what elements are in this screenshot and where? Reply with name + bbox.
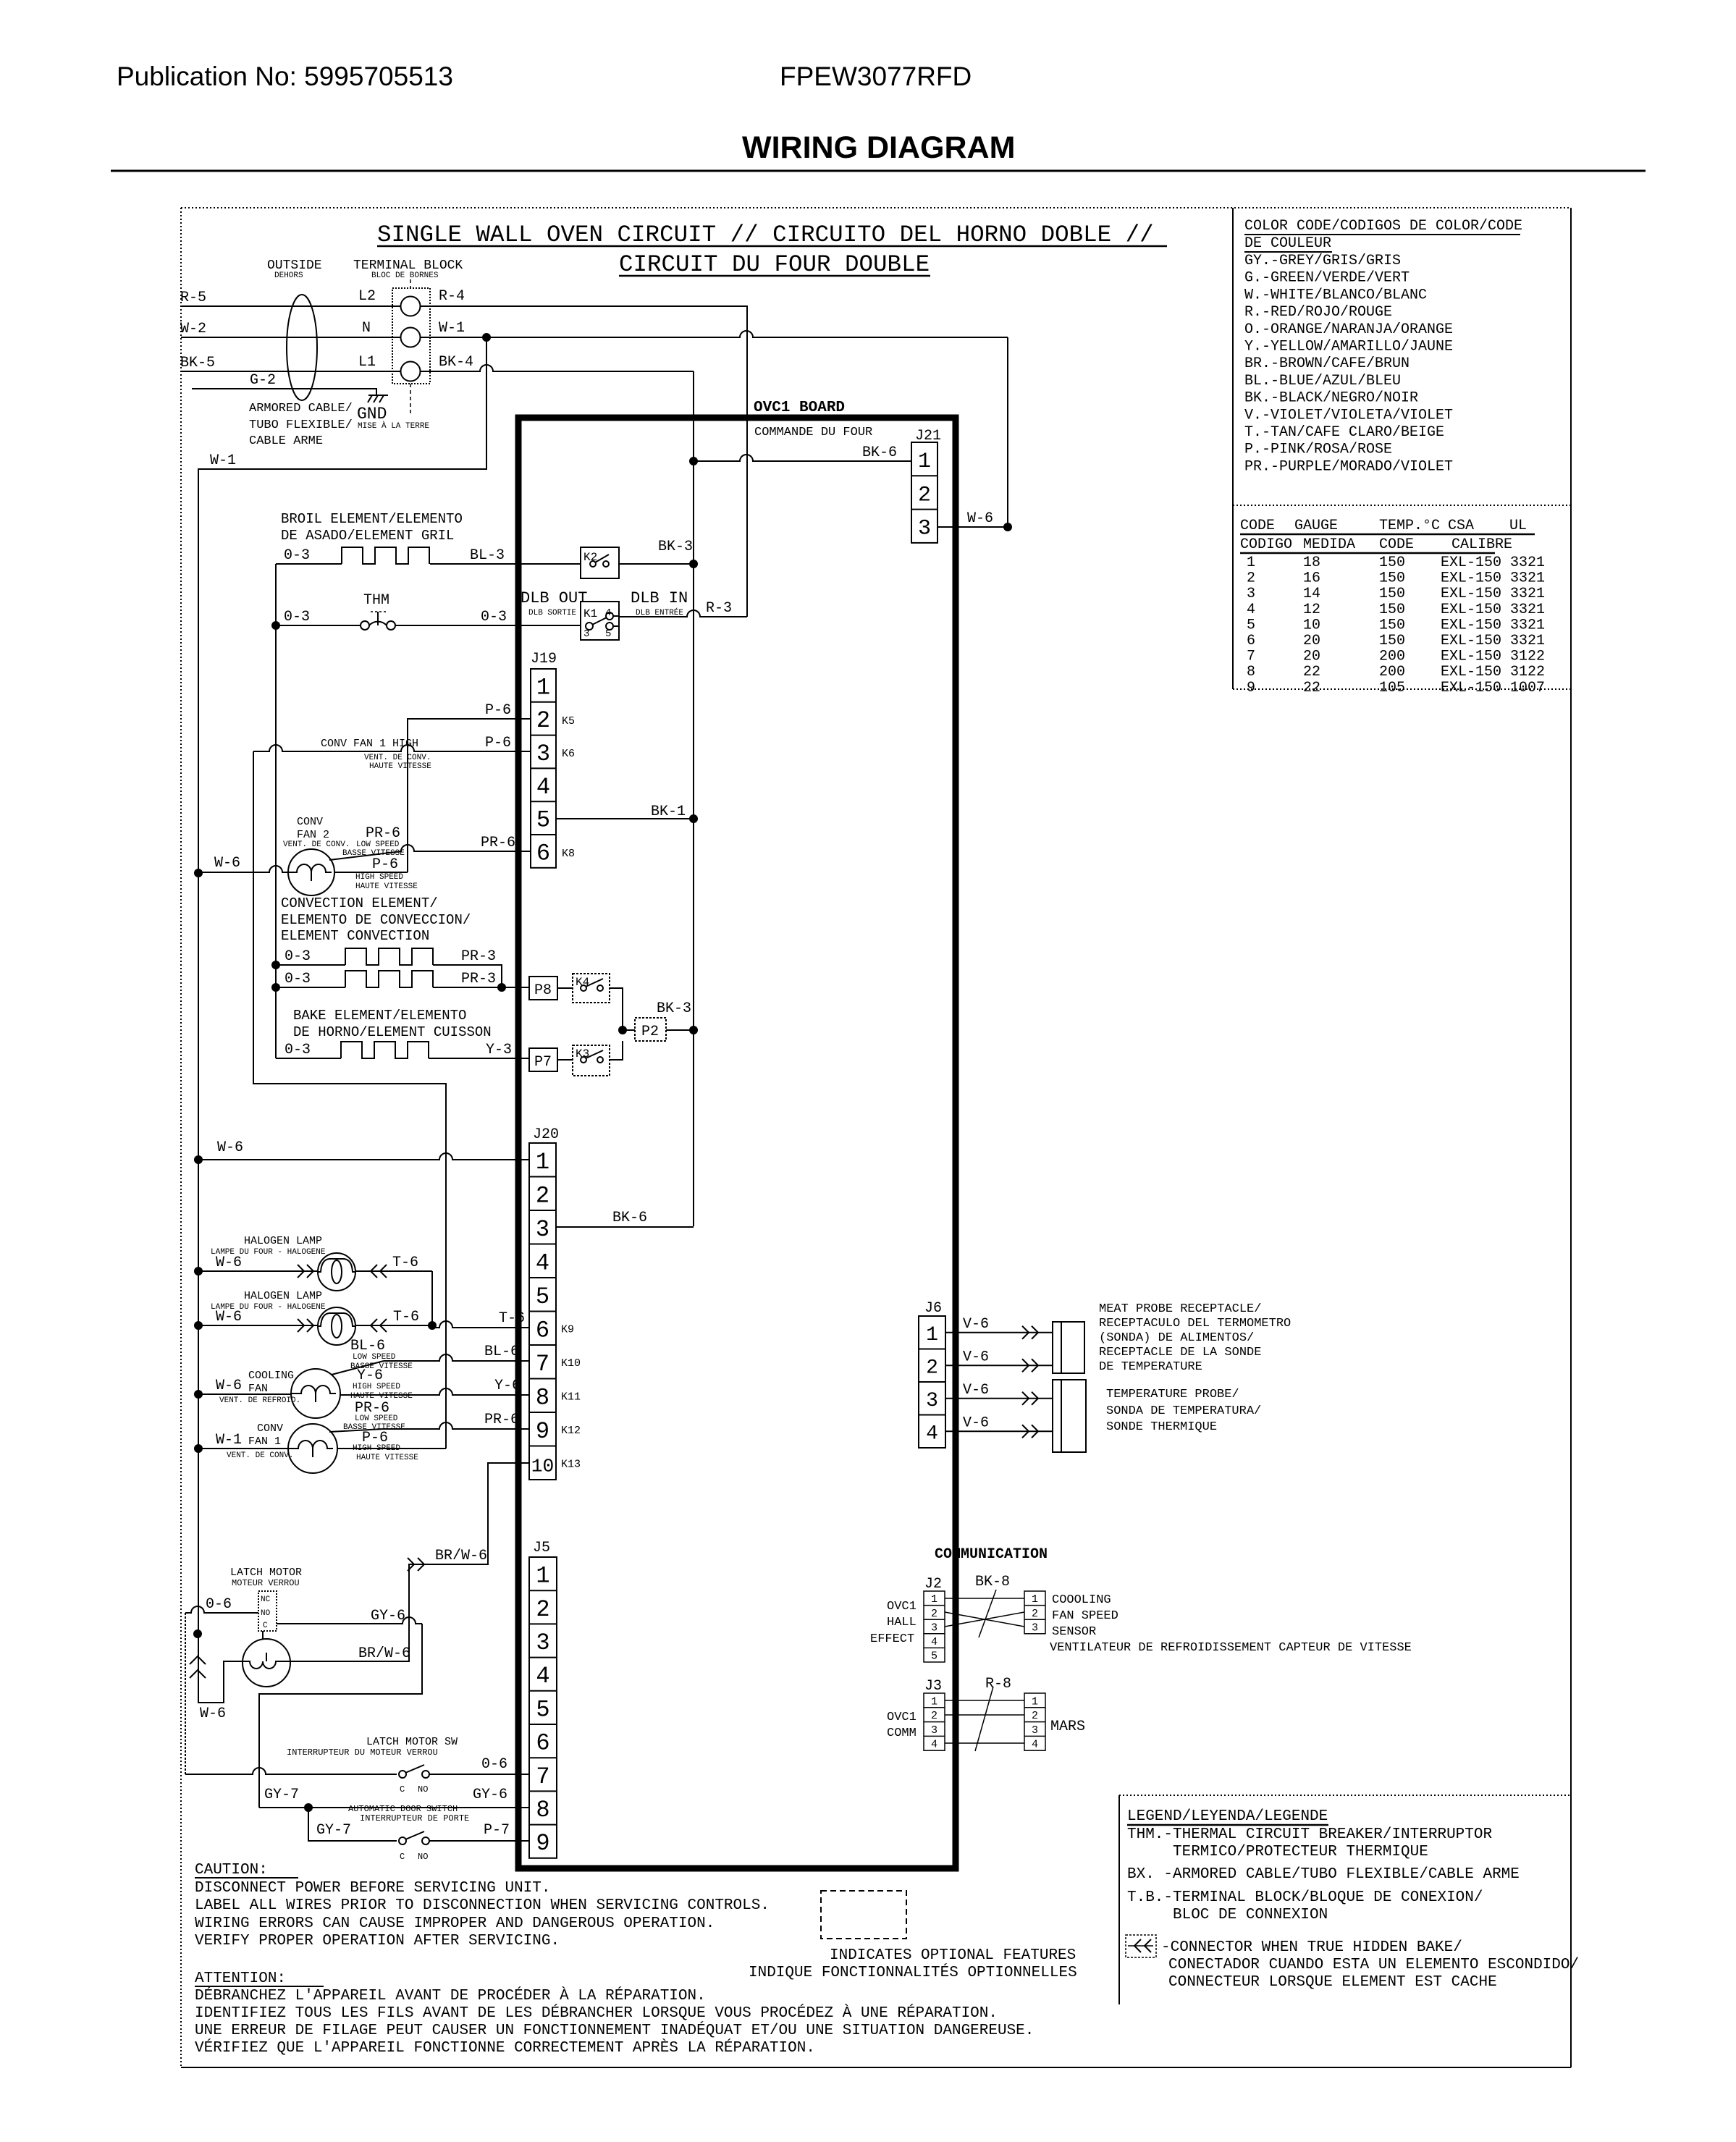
label W-6 (J20-1) xyxy=(217,1139,243,1156)
svg-text:HALOGEN LAMP: HALOGEN LAMP xyxy=(244,1235,322,1247)
svg-text:DÉBRANCHEZ L'APPAREIL AVANT DE: DÉBRANCHEZ L'APPAREIL AVANT DE PROCÉDER … xyxy=(195,1987,706,2004)
svg-text:K10: K10 xyxy=(561,1357,581,1370)
svg-text:4: 4 xyxy=(931,1739,937,1751)
legend heading xyxy=(1127,1808,1328,1825)
label K12 xyxy=(561,1425,581,1437)
label K11 xyxy=(561,1391,581,1404)
connector MARS xyxy=(1024,1693,1045,1751)
svg-text:K13: K13 xyxy=(561,1459,581,1471)
header model number xyxy=(780,62,972,91)
svg-text:PR-6: PR-6 xyxy=(484,1412,519,1428)
svg-text:LATCH MOTOR SW: LATCH MOTOR SW xyxy=(366,1736,458,1748)
wire BK vertical bus xyxy=(693,371,694,1226)
connector cooling fan sensor xyxy=(1024,1591,1045,1634)
svg-text:K8: K8 xyxy=(562,848,575,860)
svg-text:150: 150 xyxy=(1379,633,1405,649)
label K9 xyxy=(561,1324,574,1336)
label Y-6 HIGH SPEED xyxy=(350,1367,413,1401)
svg-text:COMMUNICATION: COMMUNICATION xyxy=(935,1546,1048,1563)
label N xyxy=(362,320,371,337)
svg-text:K3: K3 xyxy=(576,1047,589,1061)
label COOOLING FAN SPEED SENSOR xyxy=(1052,1593,1118,1639)
svg-text:LOW SPEED: LOW SPEED xyxy=(355,1414,398,1423)
label V-6 (1) xyxy=(963,1316,989,1333)
svg-text:NO: NO xyxy=(261,1609,271,1618)
svg-text:BK-6: BK-6 xyxy=(612,1210,647,1226)
label W-6 (lamp2) xyxy=(216,1309,242,1325)
connector J3 xyxy=(924,1693,945,1751)
svg-text:PR-6: PR-6 xyxy=(481,835,515,851)
circuit title line 1 xyxy=(377,222,1167,248)
svg-text:4: 4 xyxy=(931,1636,937,1648)
motor latch xyxy=(243,1639,290,1687)
svg-text:ARMORED CABLE/: ARMORED CABLE/ xyxy=(249,402,353,416)
label BR/W-6 (top) xyxy=(435,1548,487,1564)
svg-text:2: 2 xyxy=(1247,570,1255,587)
wire GY-6 to J5-8 xyxy=(259,1803,529,1812)
circuit title line 2 xyxy=(619,251,930,278)
svg-text:3: 3 xyxy=(1247,586,1255,602)
wire P-6 high speed (fan1) xyxy=(337,1448,446,1449)
label BK-1 xyxy=(651,804,686,820)
svg-text:CONVECTION ELEMENT/: CONVECTION ELEMENT/ xyxy=(281,895,438,911)
svg-text:10: 10 xyxy=(531,1455,555,1477)
svg-text:BK-3: BK-3 xyxy=(657,1000,691,1017)
svg-text:22: 22 xyxy=(1303,664,1320,680)
label CONV FAN 2 xyxy=(283,816,350,849)
svg-text:7: 7 xyxy=(536,1351,549,1378)
svg-text:CSA: CSA xyxy=(1448,518,1474,534)
junction dot BK-6 xyxy=(689,457,698,465)
connector J21 xyxy=(911,428,941,543)
svg-text:200: 200 xyxy=(1379,649,1405,665)
svg-text:COMM: COMM xyxy=(887,1726,917,1740)
svg-text:MEAT PROBE RECEPTACLE/: MEAT PROBE RECEPTACLE/ xyxy=(1099,1302,1261,1316)
svg-text:INDICATES OPTIONAL FEATURES: INDICATES OPTIONAL FEATURES xyxy=(830,1947,1076,1964)
wire W-6 to conv fan 2 xyxy=(198,866,288,872)
svg-text:V-6: V-6 xyxy=(963,1316,989,1333)
svg-text:W.-WHITE/BLANCO/BLANC: W.-WHITE/BLANCO/BLANC xyxy=(1244,287,1427,303)
header publication number xyxy=(117,62,453,91)
svg-text:EXL-150 3122: EXL-150 3122 xyxy=(1441,664,1545,680)
svg-text:3: 3 xyxy=(536,1216,549,1243)
wire BK-1 J19-5 xyxy=(556,814,698,823)
connector P8 xyxy=(529,977,557,1000)
svg-text:Y-6: Y-6 xyxy=(494,1378,521,1394)
svg-text:EFFECT: EFFECT xyxy=(870,1632,914,1646)
svg-text:T.B.-TERMINAL BLOCK/BLOQUE DE: T.B.-TERMINAL BLOCK/BLOQUE DE CONEXION/ xyxy=(1127,1889,1483,1906)
convection element coil 1 xyxy=(276,948,502,987)
svg-text:DE TEMPERATURE: DE TEMPERATURE xyxy=(1099,1360,1202,1374)
label 0-3 (conv1) xyxy=(285,948,311,965)
svg-text:P-7: P-7 xyxy=(484,1822,510,1839)
svg-text:BAKE ELEMENT/ELEMENTO: BAKE ELEMENT/ELEMENTO xyxy=(293,1008,466,1024)
svg-text:CODE: CODE xyxy=(1240,518,1275,534)
svg-text:TERMINAL BLOCK: TERMINAL BLOCK xyxy=(353,258,463,273)
wire R-4 to R-3 vertical xyxy=(421,306,747,617)
automatic door switch xyxy=(308,1808,529,1844)
svg-text:HIGH SPEED: HIGH SPEED xyxy=(353,1383,400,1391)
svg-text:K9: K9 xyxy=(561,1324,574,1336)
label COOLING FAN xyxy=(219,1370,300,1405)
header rule xyxy=(111,170,1646,172)
svg-text:K5: K5 xyxy=(562,715,575,728)
svg-text:HALOGEN LAMP: HALOGEN LAMP xyxy=(244,1290,322,1302)
svg-text:Y-6: Y-6 xyxy=(357,1367,383,1384)
motor conv fan 1 xyxy=(288,1424,337,1473)
svg-text:2: 2 xyxy=(926,1357,938,1379)
svg-text:R-8: R-8 xyxy=(985,1676,1011,1692)
svg-text:2: 2 xyxy=(931,1608,937,1620)
svg-text:HAUTE VITESSE: HAUTE VITESSE xyxy=(369,762,431,771)
svg-text:DE COULEUR: DE COULEUR xyxy=(1244,235,1331,252)
svg-text:CIRCUIT DU FOUR DOUBLE: CIRCUIT DU FOUR DOUBLE xyxy=(619,251,930,278)
wire W-6 from J21-3 xyxy=(937,523,1012,531)
svg-text:SONDE THERMIQUE: SONDE THERMIQUE xyxy=(1106,1420,1217,1434)
svg-text:V-6: V-6 xyxy=(963,1414,989,1431)
wire P-6 long branch xyxy=(253,751,446,1449)
svg-text:VENT. DE CONV.: VENT. DE CONV. xyxy=(364,754,431,762)
label PR-6 (J19-6) xyxy=(481,835,515,851)
svg-text:W-6: W-6 xyxy=(200,1705,226,1722)
svg-text:J20: J20 xyxy=(533,1126,559,1143)
label BK-5 xyxy=(180,355,215,371)
label VENTILATEUR xyxy=(1050,1641,1412,1655)
motor cooling fan xyxy=(291,1369,340,1418)
label O-6 (J5-7) xyxy=(481,1756,507,1773)
label C NO (door sw) xyxy=(400,1852,428,1862)
svg-text:0-3: 0-3 xyxy=(481,609,507,625)
label W-2 xyxy=(180,321,206,337)
svg-text:LOW SPEED: LOW SPEED xyxy=(356,840,400,849)
svg-text:T-6: T-6 xyxy=(499,1310,525,1327)
wire BK-6 to J21-1 xyxy=(694,455,911,461)
svg-text:DE ASADO/ELEMENT GRIL: DE ASADO/ELEMENT GRIL xyxy=(281,528,454,544)
svg-text:GY-7: GY-7 xyxy=(264,1787,299,1803)
svg-text:HAUTE VITESSE: HAUTE VITESSE xyxy=(356,1454,418,1462)
motor conv fan 2 xyxy=(288,849,334,895)
label R-4 xyxy=(439,288,465,305)
svg-text:CONECTADOR CUANDO ESTA UN ELEM: CONECTADOR CUANDO ESTA UN ELEMENTO ESCON… xyxy=(1168,1957,1579,1973)
svg-text:8: 8 xyxy=(536,1384,549,1411)
svg-text:FPEW3077RFD: FPEW3077RFD xyxy=(780,62,972,91)
svg-text:9: 9 xyxy=(1247,680,1255,696)
svg-text:5: 5 xyxy=(536,1696,549,1723)
svg-text:3: 3 xyxy=(926,1390,938,1412)
relay K1 xyxy=(581,602,619,640)
wires J3 to MARS xyxy=(945,1687,1024,1751)
wire PR-6 low speed (fan1) xyxy=(329,1422,529,1432)
wire 0-3 vertical bus xyxy=(275,564,277,1058)
junction dot W-6 fan2 xyxy=(194,869,203,877)
attention heading xyxy=(195,1970,324,1987)
svg-text:VERIFY PROPER OPERATION AFTER: VERIFY PROPER OPERATION AFTER SERVICING. xyxy=(195,1933,560,1949)
label K13 xyxy=(561,1459,581,1471)
svg-text:EXL-150 3321: EXL-150 3321 xyxy=(1441,617,1545,633)
terminal block TB xyxy=(392,288,430,416)
svg-text:NO: NO xyxy=(418,1852,428,1862)
svg-text:PR.-PURPLE/MORADO/VIOLET: PR.-PURPLE/MORADO/VIOLET xyxy=(1244,458,1453,475)
svg-text:Publication No: 5995705513: Publication No: 5995705513 xyxy=(117,62,453,91)
svg-text:R-3: R-3 xyxy=(706,600,732,617)
junction dots P2 xyxy=(618,1026,698,1034)
svg-text:5: 5 xyxy=(536,1283,549,1310)
svg-text:5: 5 xyxy=(931,1650,937,1663)
label 0-3 (conv2) xyxy=(285,971,311,987)
label BAKE ELEMENT xyxy=(293,1008,492,1040)
label P-6 (J19-3) xyxy=(485,735,511,751)
svg-text:FAN: FAN xyxy=(248,1383,268,1395)
svg-text:CONV: CONV xyxy=(257,1422,283,1435)
label OVC1 BOARD xyxy=(754,400,845,416)
svg-text:R.-RED/ROJO/ROUGE: R.-RED/ROJO/ROUGE xyxy=(1244,304,1392,321)
svg-text:K4: K4 xyxy=(576,976,589,989)
label COMMUNICATION xyxy=(935,1546,1048,1563)
wires J2 to sensor xyxy=(945,1590,1024,1637)
svg-text:3: 3 xyxy=(536,741,550,767)
svg-text:BR/W-6: BR/W-6 xyxy=(358,1645,410,1662)
svg-text:O.-ORANGE/NARANJA/ORANGE: O.-ORANGE/NARANJA/ORANGE xyxy=(1244,321,1453,338)
label V-6 (2) xyxy=(963,1349,989,1365)
svg-text:4: 4 xyxy=(536,774,550,801)
legend BX entry xyxy=(1127,1866,1520,1883)
svg-text:3: 3 xyxy=(1032,1724,1038,1737)
wire T-6 to J20-6 xyxy=(432,1321,529,1328)
label PR-6 LOW SPEED (fan1) xyxy=(343,1400,405,1432)
svg-text:COLOR CODE/CODIGOS DE COLOR/CO: COLOR CODE/CODIGOS DE COLOR/CODE xyxy=(1244,218,1522,235)
svg-text:150: 150 xyxy=(1379,555,1405,571)
connector P7 xyxy=(529,1048,557,1071)
legend TB entry xyxy=(1127,1889,1483,1923)
wire P-6 to J19-3 xyxy=(253,745,531,751)
legend THM entry xyxy=(1127,1826,1492,1860)
svg-text:C: C xyxy=(400,1852,405,1862)
svg-text:CONNECTEUR LORSQUE ELEMENT EST: CONNECTEUR LORSQUE ELEMENT EST CACHE xyxy=(1168,1974,1497,1991)
gauge table rows xyxy=(1247,555,1545,696)
label GY-6 (latch) xyxy=(371,1608,405,1624)
svg-text:GAUGE: GAUGE xyxy=(1294,518,1338,534)
label GND xyxy=(357,405,429,431)
svg-text:BK-6: BK-6 xyxy=(862,444,897,461)
svg-text:ELEMENTO DE CONVECCION/: ELEMENTO DE CONVECCION/ xyxy=(281,912,471,928)
junction dot W latch xyxy=(193,1629,202,1638)
svg-text:TUBO FLEXIBLE/: TUBO FLEXIBLE/ xyxy=(249,418,353,432)
svg-text:INDIQUE FONCTIONNALITÉS OPTION: INDIQUE FONCTIONNALITÉS OPTIONNELLES xyxy=(749,1964,1077,1981)
label DLB IN xyxy=(631,589,688,617)
svg-text:1: 1 xyxy=(536,674,550,701)
gauge table heading xyxy=(1240,518,1535,553)
svg-text:BL-6: BL-6 xyxy=(484,1344,519,1360)
wire GY-6 from latch C xyxy=(259,1617,422,1808)
wire BR/W-6 to J20-10 xyxy=(290,1463,529,1661)
svg-text:BR/W-6: BR/W-6 xyxy=(435,1548,487,1564)
svg-text:6: 6 xyxy=(536,840,550,867)
wire W-2 xyxy=(181,337,400,338)
svg-text:BK.-BLACK/NEGRO/NOIR: BK.-BLACK/NEGRO/NOIR xyxy=(1244,390,1418,407)
wire R-5 xyxy=(181,305,400,307)
label P-6 HIGH SPEED (fan1) xyxy=(353,1430,418,1462)
svg-text:22: 22 xyxy=(1303,680,1320,696)
wire BK-6 from J20-3 xyxy=(556,1226,694,1228)
svg-text:PR-3: PR-3 xyxy=(461,948,496,965)
svg-text:K12: K12 xyxy=(561,1425,581,1437)
svg-text:EXL-150 3122: EXL-150 3122 xyxy=(1441,649,1545,665)
svg-text:10: 10 xyxy=(1303,617,1320,633)
svg-text:EXL-150 3321: EXL-150 3321 xyxy=(1441,602,1545,618)
svg-text:R-4: R-4 xyxy=(439,288,465,305)
svg-text:MISE À LA TERRE: MISE À LA TERRE xyxy=(358,421,429,431)
wire BK-5 xyxy=(181,371,400,372)
ground symbol GND xyxy=(368,395,388,402)
label BL-3 xyxy=(470,547,505,564)
svg-text:OVC1: OVC1 xyxy=(887,1600,917,1614)
label 0-3 (THM left) xyxy=(284,609,310,625)
svg-text:TERMICO/PROTECTEUR THERMIQUE: TERMICO/PROTECTEUR THERMIQUE xyxy=(1173,1844,1428,1860)
svg-text:150: 150 xyxy=(1379,617,1405,633)
label OVC1 COMM xyxy=(887,1711,917,1740)
wire O-6 to latch NO xyxy=(185,1606,258,1774)
svg-text:150: 150 xyxy=(1379,602,1405,618)
svg-text:OUTSIDE: OUTSIDE xyxy=(267,258,322,273)
label K10 xyxy=(561,1357,581,1370)
svg-text:EXL-150 3321: EXL-150 3321 xyxy=(1441,586,1545,602)
label V-6 (4) xyxy=(963,1414,989,1431)
svg-text:GY-6: GY-6 xyxy=(371,1608,405,1624)
label BK-4 xyxy=(439,354,473,371)
label BK-6 (J21) xyxy=(862,444,897,461)
svg-text:5: 5 xyxy=(536,807,550,834)
label GY-7 (dot) xyxy=(264,1787,299,1803)
svg-text:RECEPTACLE DE LA SONDE: RECEPTACLE DE LA SONDE xyxy=(1099,1346,1261,1359)
caution heading xyxy=(195,1862,298,1879)
label L2 xyxy=(358,288,376,305)
wire DLB IN / R-3 xyxy=(619,610,747,617)
label P-6 HIGH SPEED xyxy=(355,856,418,891)
svg-text:3: 3 xyxy=(1032,1622,1038,1634)
relay K3 xyxy=(557,1041,623,1076)
svg-text:18: 18 xyxy=(1303,555,1320,571)
color code list xyxy=(1244,253,1453,475)
connector J5 xyxy=(529,1540,557,1858)
junction dot 0-3 THM xyxy=(271,621,280,630)
relay K2 xyxy=(581,547,694,578)
svg-text:HAUTE VITESSE: HAUTE VITESSE xyxy=(355,882,418,891)
wire P-6 high speed xyxy=(334,872,408,873)
svg-text:COOLING: COOLING xyxy=(248,1370,294,1382)
svg-text:J19: J19 xyxy=(531,651,557,667)
svg-text:NO: NO xyxy=(418,1784,428,1795)
svg-text:INTERRUPTEUR DU MOTEUR VERROU: INTERRUPTEUR DU MOTEUR VERROU xyxy=(287,1747,438,1758)
main diagram border xyxy=(181,208,1571,2067)
svg-text:1: 1 xyxy=(931,1695,937,1708)
svg-text:W-6: W-6 xyxy=(214,855,240,872)
svg-text:0-3: 0-3 xyxy=(285,1042,311,1058)
svg-text:1: 1 xyxy=(536,1563,549,1590)
svg-text:P7: P7 xyxy=(534,1054,552,1071)
label W-6 (fan2) xyxy=(214,855,240,872)
svg-text:1: 1 xyxy=(1032,1695,1038,1708)
svg-text:THM: THM xyxy=(363,592,389,609)
wire BL-6 low speed xyxy=(332,1354,529,1375)
svg-text:200: 200 xyxy=(1379,664,1405,680)
svg-text:0-3: 0-3 xyxy=(284,547,310,564)
label W-6 (cooling fan) xyxy=(216,1378,242,1394)
svg-text:CAUTION:: CAUTION: xyxy=(195,1862,268,1879)
svg-text:6: 6 xyxy=(1247,633,1255,649)
wire V-6 J6-4 xyxy=(945,1425,1053,1438)
attention text xyxy=(195,1987,1034,2057)
svg-text:7: 7 xyxy=(536,1763,549,1790)
svg-text:P-6: P-6 xyxy=(485,735,511,751)
svg-text:P8: P8 xyxy=(534,982,552,999)
svg-text:DLB IN: DLB IN xyxy=(631,589,688,607)
svg-text:L1: L1 xyxy=(358,354,376,371)
svg-text:W-6: W-6 xyxy=(216,1378,242,1394)
label AUTOMATIC DOOR SWITCH xyxy=(348,1804,469,1823)
label J2 xyxy=(924,1576,942,1593)
wire W-6 to J20-1 xyxy=(194,1153,529,1164)
svg-text:SENSOR: SENSOR xyxy=(1052,1625,1096,1639)
halogen lamp 1 xyxy=(194,1253,432,1325)
legend connector entry xyxy=(1161,1939,1579,1991)
label OUTSIDE/DEHORS xyxy=(267,258,322,280)
svg-text:VENT. DE CONV.: VENT. DE CONV. xyxy=(283,840,350,849)
label MEAT PROBE RECEPTACLE xyxy=(1099,1302,1291,1374)
svg-text:K1: K1 xyxy=(583,607,597,620)
header title WIRING DIAGRAM xyxy=(742,130,1015,165)
label G-2 xyxy=(250,372,276,389)
svg-text:LEGEND/LEYENDA/LEGENDE: LEGEND/LEYENDA/LEGENDE xyxy=(1127,1808,1328,1825)
svg-text:COOOLING: COOOLING xyxy=(1052,1593,1111,1607)
svg-text:105: 105 xyxy=(1379,680,1405,696)
svg-text:Y.-YELLOW/AMARILLO/JAUNE: Y.-YELLOW/AMARILLO/JAUNE xyxy=(1244,339,1453,355)
label PR-3 (conv1) xyxy=(461,948,496,965)
svg-text:9: 9 xyxy=(536,1830,549,1857)
label Y-6 (J20-8) xyxy=(494,1378,521,1394)
svg-text:CODE: CODE xyxy=(1379,536,1414,553)
wire PR-6 to J19-6 xyxy=(401,845,531,851)
svg-text:G.-GREEN/VERDE/VERT: G.-GREEN/VERDE/VERT xyxy=(1244,270,1410,287)
wire W-6 to cooling fan xyxy=(194,1390,291,1399)
svg-text:3: 3 xyxy=(931,1724,937,1737)
label K6 xyxy=(562,748,575,760)
broil element resistor xyxy=(276,547,581,564)
label W-1 (left) xyxy=(210,452,236,469)
svg-text:GY-6: GY-6 xyxy=(473,1787,507,1803)
junction dots convection xyxy=(271,961,506,992)
svg-text:SONDA DE TEMPERATURA/: SONDA DE TEMPERATURA/ xyxy=(1106,1404,1261,1418)
armored cable ellipse xyxy=(287,295,317,400)
svg-text:150: 150 xyxy=(1379,586,1405,602)
label DLB OUT xyxy=(521,589,587,617)
connector J2 xyxy=(924,1591,945,1663)
svg-text:DLB ENTRÉE: DLB ENTRÉE xyxy=(636,607,683,617)
svg-text:TEMPERATURE PROBE/: TEMPERATURE PROBE/ xyxy=(1106,1388,1239,1401)
label INDICATES OPTIONAL FEATURES xyxy=(749,1947,1077,1981)
wire P-6 to J19-2 xyxy=(408,719,531,872)
label CONV FAN 1 HIGH xyxy=(321,738,431,771)
svg-text:WIRING ERRORS CAN CAUSE IMPROP: WIRING ERRORS CAN CAUSE IMPROPER AND DAN… xyxy=(195,1915,715,1932)
svg-text:CABLE ARME: CABLE ARME xyxy=(249,434,323,448)
svg-text:L2: L2 xyxy=(358,288,376,305)
label 0-3 (THM right) xyxy=(481,609,507,625)
svg-text:GY-7: GY-7 xyxy=(316,1822,351,1839)
connector J19 xyxy=(531,651,557,868)
svg-text:BK-8: BK-8 xyxy=(975,1574,1010,1590)
svg-text:W-1: W-1 xyxy=(210,452,236,469)
svg-text:2: 2 xyxy=(1032,1710,1038,1722)
svg-text:T.-TAN/CAFE CLARO/BEIGE: T.-TAN/CAFE CLARO/BEIGE xyxy=(1244,424,1444,441)
